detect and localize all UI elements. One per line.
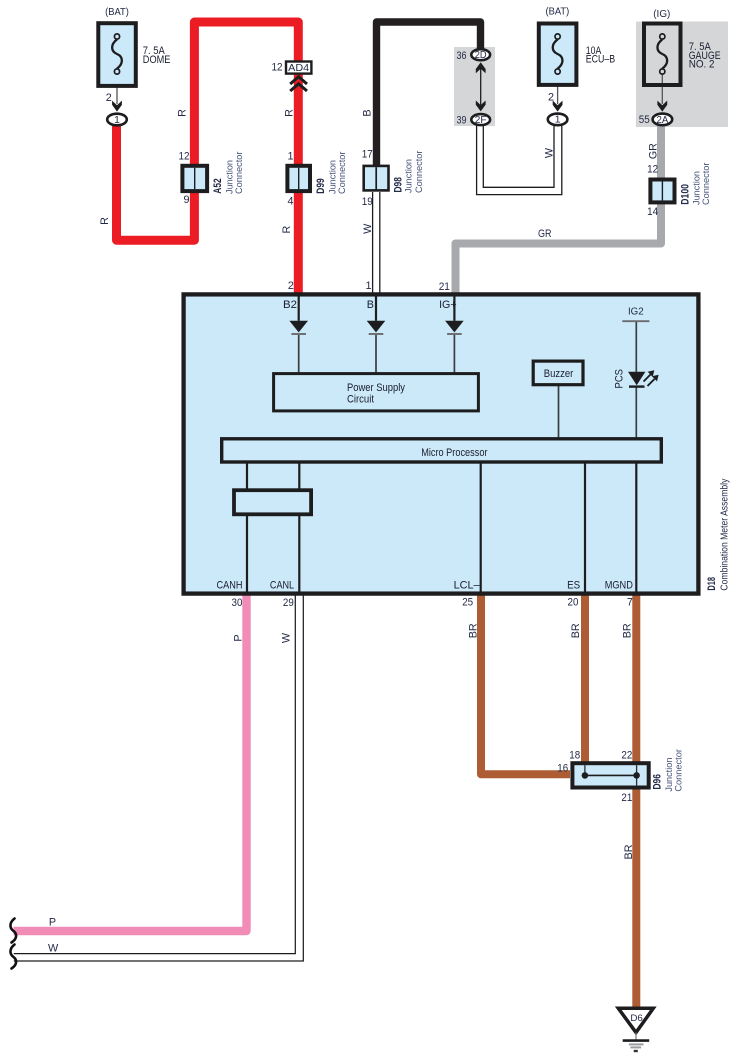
svg-text:Connector: Connector [234,151,245,194]
svg-text:Connector: Connector [674,748,685,791]
svg-text:Connector: Connector [414,150,425,193]
svg-text:21: 21 [621,792,632,804]
svg-text:Connector: Connector [337,151,348,194]
svg-text:BR: BR [622,623,634,638]
svg-text:A52: A52 [212,178,224,193]
svg-text:30: 30 [232,597,243,609]
svg-text:D99: D99 [315,178,327,193]
svg-text:2F: 2F [475,115,487,126]
svg-text:Power Supply: Power Supply [347,382,406,394]
svg-text:BR: BR [623,844,635,859]
svg-text:R: R [177,109,189,117]
svg-text:DOME: DOME [143,54,171,66]
svg-text:Buzzer: Buzzer [544,368,574,380]
svg-text:Connector: Connector [701,162,712,205]
svg-text:1: 1 [365,280,371,292]
svg-text:W: W [543,147,555,158]
svg-text:CANL: CANL [270,580,294,592]
svg-text:PCS: PCS [614,369,626,389]
svg-text:LCL–: LCL– [454,580,480,592]
svg-text:12: 12 [272,62,283,74]
svg-text:16: 16 [557,763,568,775]
svg-text:MGND: MGND [605,580,633,592]
svg-text:W: W [362,223,374,234]
svg-text:GR: GR [538,228,552,240]
svg-text:W: W [48,942,59,954]
svg-text:12: 12 [179,151,190,163]
svg-text:NO. 2: NO. 2 [689,59,715,71]
svg-text:36: 36 [457,50,467,62]
svg-text:ES: ES [567,580,580,592]
svg-text:22: 22 [621,750,632,762]
svg-text:W: W [281,632,293,643]
svg-text:2: 2 [288,280,294,292]
svg-text:1: 1 [114,115,120,126]
svg-text:(BAT): (BAT) [105,7,129,18]
svg-text:39: 39 [457,115,467,127]
svg-text:21: 21 [439,281,450,293]
svg-text:1: 1 [287,151,293,163]
svg-text:GR: GR [647,143,659,159]
svg-text:12: 12 [647,164,658,176]
svg-text:B2: B2 [283,299,297,311]
svg-text:B: B [367,299,374,311]
svg-text:14: 14 [647,206,658,218]
svg-text:55: 55 [639,114,650,126]
svg-text:BR: BR [467,623,479,638]
svg-text:Combination Meter Assembly: Combination Meter Assembly [719,478,730,590]
svg-text:(BAT): (BAT) [546,7,570,18]
svg-text:BR: BR [570,623,582,638]
svg-text:AD4: AD4 [288,63,309,74]
svg-text:D96: D96 [652,774,664,789]
svg-text:2A: 2A [657,115,669,126]
svg-text:4: 4 [287,196,293,208]
svg-text:Micro Processor: Micro Processor [421,447,488,459]
svg-text:R: R [99,217,111,225]
svg-text:2D: 2D [475,50,487,61]
svg-text:29: 29 [283,597,294,609]
svg-text:(IG): (IG) [653,9,670,20]
svg-text:2: 2 [548,91,554,103]
svg-text:R: R [284,109,296,117]
svg-text:25: 25 [462,597,473,609]
svg-text:R: R [281,226,293,234]
svg-text:1: 1 [555,115,561,126]
svg-text:P: P [49,916,56,928]
svg-text:D100: D100 [680,184,692,205]
svg-text:D6: D6 [630,1013,643,1023]
svg-text:D18: D18 [706,577,718,591]
svg-text:7: 7 [627,597,633,609]
svg-text:CANH: CANH [217,580,243,592]
svg-text:9: 9 [183,194,189,206]
svg-text:P: P [233,634,245,641]
svg-text:18: 18 [569,750,580,762]
svg-text:17: 17 [362,149,373,161]
svg-text:20: 20 [568,597,579,609]
svg-text:IG2: IG2 [628,307,644,318]
svg-text:Circuit: Circuit [347,393,374,405]
svg-text:B: B [362,109,374,116]
svg-text:IG+: IG+ [439,299,457,311]
svg-text:19: 19 [362,196,373,208]
svg-text:2: 2 [106,92,112,104]
svg-text:ECU–B: ECU–B [586,54,615,66]
